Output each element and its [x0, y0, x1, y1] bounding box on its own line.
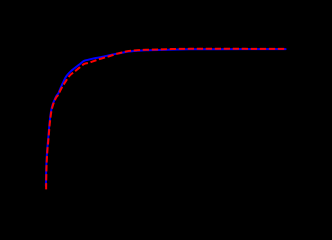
blue solid curve: [46, 49, 286, 186]
red dashed curve: [46, 49, 285, 190]
